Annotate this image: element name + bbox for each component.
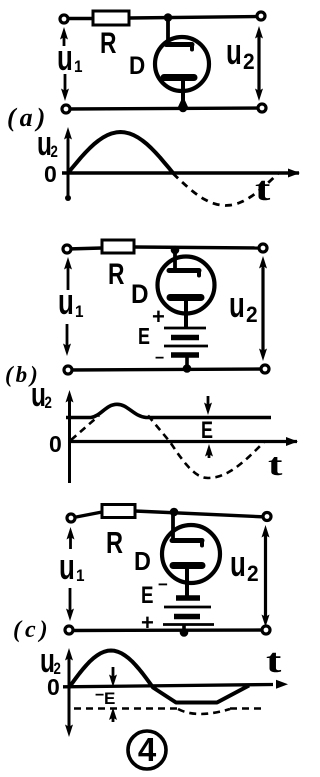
svg-text:2: 2 — [51, 143, 58, 162]
svg-text:R: R — [108, 257, 124, 291]
svg-text:(c): (c) — [13, 617, 52, 643]
svg-text:2: 2 — [246, 303, 258, 328]
svg-text:R: R — [106, 525, 123, 560]
svg-text:t: t — [268, 447, 283, 482]
svg-text:u: u — [57, 38, 73, 78]
svg-text:2: 2 — [247, 562, 259, 587]
svg-text:2: 2 — [243, 50, 255, 75]
svg-text:E: E — [104, 689, 115, 708]
svg-text:t: t — [255, 170, 271, 208]
svg-text:D: D — [131, 280, 149, 309]
svg-text:u: u — [58, 282, 74, 322]
svg-text:u: u — [229, 285, 245, 325]
svg-text:2: 2 — [45, 394, 52, 413]
svg-text:u: u — [59, 547, 75, 587]
svg-text:1: 1 — [74, 57, 83, 76]
svg-text:0: 0 — [49, 431, 62, 457]
svg-text:u: u — [226, 32, 242, 72]
svg-text:t: t — [266, 642, 282, 680]
svg-text:D: D — [129, 52, 145, 80]
svg-text:−: − — [155, 350, 164, 367]
svg-text:(a): (a) — [7, 103, 49, 132]
svg-text:E: E — [141, 582, 153, 609]
svg-text:1: 1 — [76, 566, 85, 585]
svg-text:0: 0 — [47, 674, 60, 700]
svg-text:E: E — [138, 324, 150, 350]
svg-text:D: D — [134, 548, 151, 576]
svg-text:(b): (b) — [5, 362, 41, 387]
svg-text:E: E — [201, 418, 213, 444]
svg-text:R: R — [100, 26, 116, 60]
svg-text:+: + — [141, 610, 154, 635]
svg-text:+: + — [152, 304, 165, 329]
svg-text:0: 0 — [44, 161, 57, 187]
svg-text:4: 4 — [138, 731, 157, 768]
svg-text:−: − — [158, 575, 168, 594]
svg-text:1: 1 — [75, 302, 84, 321]
svg-text:−: − — [95, 687, 104, 704]
svg-text:u: u — [230, 544, 246, 584]
